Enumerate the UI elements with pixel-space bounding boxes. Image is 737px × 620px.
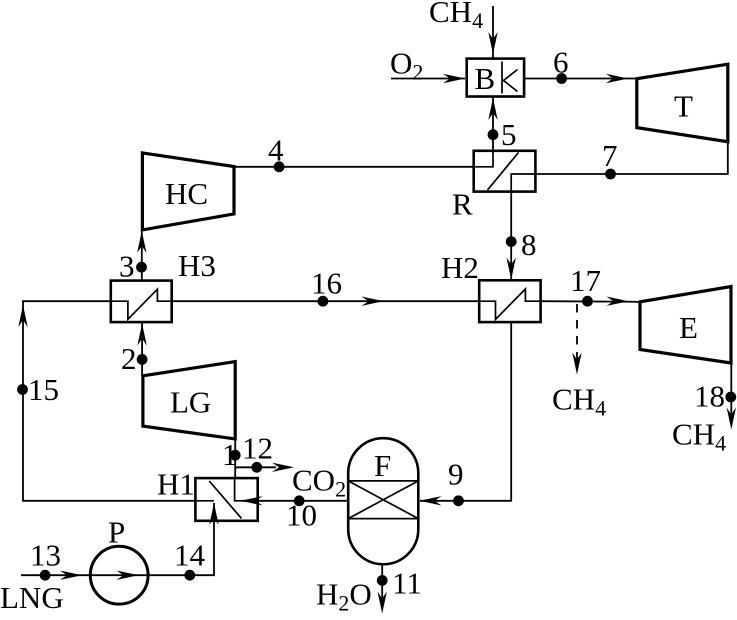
regenerator R box — [474, 151, 536, 192]
arrow 15 up — [18, 305, 27, 327]
wire 16 H3 to H2 — [172, 300, 480, 302]
node 1 — [230, 450, 241, 461]
node 18 — [725, 392, 736, 403]
node 3 — [136, 262, 147, 273]
wire O2 inlet — [391, 78, 465, 80]
wire 2 LG to H3 — [141, 322, 143, 376]
svg-text:HC: HC — [165, 176, 208, 211]
svg-text:12: 12 — [242, 431, 273, 466]
svg-text:17: 17 — [570, 263, 601, 298]
wire 9 H2 to F — [420, 322, 511, 501]
F internal X — [348, 481, 418, 519]
R internal hot path — [474, 151, 493, 167]
turbine T — [637, 64, 728, 142]
wire 7 turbine exhaust to R — [535, 142, 727, 174]
svg-text:R: R — [452, 187, 473, 222]
svg-text:3: 3 — [119, 249, 135, 284]
node 11 — [377, 575, 388, 586]
F internal upper line — [348, 480, 418, 482]
wire 1 LG to H1 — [234, 439, 236, 478]
arrow into burner left — [443, 74, 465, 83]
svg-text:P: P — [108, 515, 125, 550]
wire CH4 inlet to burner — [492, 6, 494, 58]
R internal diagonal — [488, 153, 519, 191]
arrow 13 into pump — [60, 571, 82, 580]
wire 17 H2 to E — [541, 300, 640, 303]
H1 internal hot path — [235, 478, 258, 501]
node 17 — [582, 296, 593, 307]
node 10 — [294, 495, 305, 506]
svg-text:13: 13 — [30, 538, 61, 573]
svg-text:7: 7 — [602, 138, 618, 173]
svg-text:10: 10 — [286, 498, 317, 533]
svg-text:LG: LG — [170, 385, 211, 420]
wire 4 HC to R — [234, 166, 474, 168]
svg-text:16: 16 — [311, 266, 342, 301]
burner flame symbol — [504, 70, 518, 92]
wire 12 CO2 branch — [235, 466, 276, 468]
expander LG — [143, 362, 235, 439]
wire 8 R to H2 — [510, 192, 512, 281]
heat exchanger H2 box — [479, 280, 540, 322]
wire 5 R to burner — [492, 97, 494, 151]
burner B box — [467, 59, 524, 97]
wire 6 burner to turbine — [524, 78, 637, 80]
svg-text:F: F — [374, 448, 391, 483]
svg-text:LNG: LNG — [0, 580, 64, 615]
F internal lower line — [348, 518, 418, 520]
arrow into turbine T — [606, 74, 628, 83]
svg-text:H3: H3 — [178, 248, 216, 283]
svg-text:8: 8 — [521, 227, 537, 262]
arrow 14 into H1 bottom — [209, 503, 218, 525]
wire 10 F to H1 — [242, 500, 348, 502]
node 13 — [40, 570, 51, 581]
R internal cold path — [511, 174, 535, 192]
wire 18 E outlet — [730, 363, 732, 414]
H1 internal cold stub — [195, 500, 214, 502]
svg-text:14: 14 — [174, 538, 206, 573]
arrow 9 into F — [420, 496, 442, 505]
svg-text:T: T — [674, 89, 693, 124]
wire methane loop left — [23, 301, 195, 501]
burner internal divider — [501, 62, 503, 94]
arrow 3 into HC bottom — [137, 231, 146, 253]
svg-text:18: 18 — [694, 379, 725, 414]
svg-text:2: 2 — [121, 341, 137, 376]
svg-text:1: 1 — [222, 437, 238, 472]
arrow into burner top — [488, 32, 497, 54]
H1 internal diagonal — [209, 481, 241, 518]
node 9 — [453, 495, 464, 506]
compressor HC — [142, 153, 234, 230]
arrow on wire 16 — [362, 297, 384, 306]
node 8 — [506, 236, 517, 247]
svg-text:15: 15 — [28, 372, 59, 407]
heat exchanger H3 box — [111, 281, 172, 323]
pump P — [90, 546, 148, 604]
svg-text:B: B — [475, 61, 496, 96]
svg-text:6: 6 — [553, 45, 569, 80]
arrow 17 into E — [607, 297, 629, 306]
arrow on dashed wire — [572, 353, 581, 375]
dashed CH4 bleed wire — [576, 304, 578, 361]
expander E — [640, 287, 731, 364]
svg-text:11: 11 — [392, 566, 422, 601]
svg-text:4: 4 — [268, 133, 284, 168]
node 15 — [17, 384, 28, 395]
svg-text:5: 5 — [501, 117, 517, 152]
arrow 10 into H1 — [241, 496, 263, 505]
separator F vessel — [348, 438, 418, 564]
node 6 — [556, 73, 567, 84]
heat exchanger H1 box — [195, 478, 257, 521]
H3 internal zigzag — [111, 289, 172, 319]
svg-text:H2: H2 — [441, 250, 479, 285]
arrow 8 into H2 top — [507, 258, 516, 280]
arrow 5 into burner bottom — [488, 98, 497, 120]
arrow 12 right — [272, 463, 294, 472]
H2 internal zigzag — [479, 289, 540, 319]
arrow inside pump — [117, 571, 139, 580]
node 7 — [605, 169, 616, 180]
node 16 — [318, 296, 329, 307]
svg-text:9: 9 — [448, 457, 464, 492]
wire 3 H3 to HC — [141, 228, 143, 281]
arrow 2 into H3 bottom — [137, 324, 146, 346]
node 14 — [184, 570, 195, 581]
node 2 — [137, 354, 148, 365]
node 5 — [488, 129, 499, 140]
svg-text:H1: H1 — [157, 467, 195, 502]
node 4 — [274, 161, 285, 172]
arrow 11 down — [378, 592, 387, 614]
arrow 18 down — [727, 408, 736, 430]
svg-text:E: E — [679, 310, 698, 345]
wire 11 F bottom outlet — [381, 564, 383, 598]
node 12 — [251, 462, 262, 473]
wire LNG feed through pump to H1 — [21, 503, 214, 575]
